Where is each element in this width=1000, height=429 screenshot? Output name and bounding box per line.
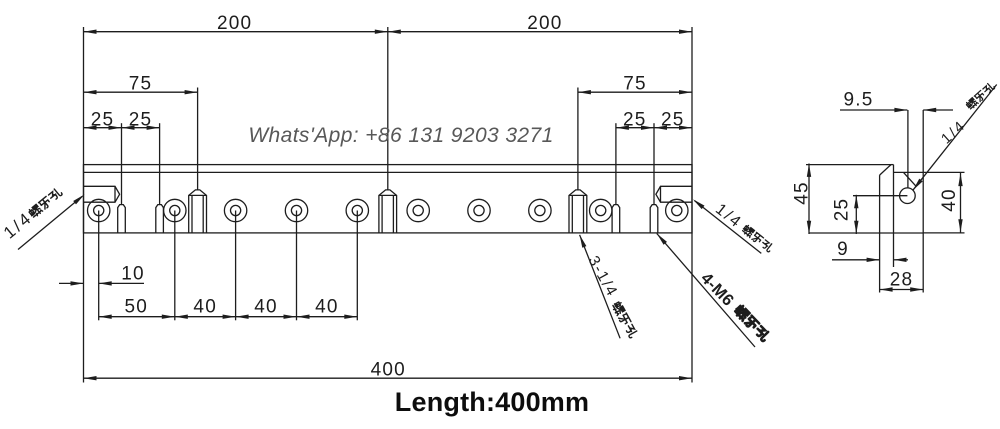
svg-text:75: 75 bbox=[623, 73, 647, 94]
svg-text:25: 25 bbox=[91, 109, 115, 130]
svg-text:75: 75 bbox=[129, 73, 153, 94]
svg-text:200: 200 bbox=[527, 13, 562, 34]
leader left arrowhead bbox=[73, 194, 84, 204]
svg-text:40: 40 bbox=[315, 296, 339, 317]
leader right 1/4 CJK 螺牙孔 bbox=[741, 224, 774, 252]
extension line centre 200mm bbox=[387, 27, 389, 191]
dim 200 mid arrow left-side bbox=[375, 30, 388, 34]
dim 200 left arrow bbox=[84, 30, 97, 34]
leader 3-1/4 CJK 螺牙孔 bbox=[611, 301, 638, 339]
bar second top line bbox=[84, 171, 693, 173]
dim 25 top arrow bbox=[854, 195, 858, 208]
extension right edge up bbox=[922, 110, 924, 172]
extension hole centre up bbox=[907, 110, 909, 188]
end leader 1/4 threaded hole: line bbox=[913, 85, 997, 191]
hole circle inner #1 bbox=[94, 205, 104, 215]
hole circle inner #10 bbox=[672, 205, 682, 215]
dimension 75 right: line bbox=[578, 91, 692, 93]
end view: bottom edge (with extension to 45 dim) bbox=[809, 232, 923, 234]
hole circle outer #10 bbox=[666, 199, 688, 221]
left end tab (1/4 hole side view) bbox=[84, 186, 120, 202]
leader left 1/4 threaded hole: line bbox=[18, 197, 82, 250]
leader 3-1/4 arrowhead bbox=[580, 235, 587, 248]
hole circle outer #9 bbox=[590, 199, 612, 221]
1/4 post #3 bbox=[569, 190, 587, 233]
dim 9.5 arrow at hole centre bbox=[894, 108, 907, 112]
dimension 200/200 top: line bbox=[84, 31, 693, 33]
dim 10 outside-left arrow bbox=[71, 281, 84, 285]
right end tab (1/4 hole side view) bbox=[656, 186, 692, 202]
end view: strip right edge bbox=[893, 165, 895, 233]
svg-text:Whats'App: +86 131 9203 3271: Whats'App: +86 131 9203 3271 bbox=[248, 124, 553, 147]
dim 45 top arrow bbox=[807, 164, 811, 177]
end view: 1/4 hole circle bbox=[900, 188, 916, 204]
end view: right edge bbox=[922, 172, 924, 233]
svg-text:9: 9 bbox=[837, 239, 849, 260]
extension line pin 25mm bbox=[121, 123, 123, 204]
svg-text:25: 25 bbox=[623, 109, 647, 130]
hole circle outer #2 bbox=[164, 199, 186, 221]
extension line 75mm left post bbox=[197, 88, 199, 191]
extension line hole 10mm bbox=[98, 211, 100, 321]
end view: main top edge bbox=[894, 171, 924, 173]
dimension 10: lines bbox=[59, 282, 84, 284]
extension line pin 350mm bbox=[615, 123, 617, 204]
hole circle outer #3 bbox=[224, 199, 246, 221]
dim 25L arrows bbox=[84, 126, 97, 130]
dim 40 top extension bbox=[923, 171, 964, 173]
dim 75L right arrow bbox=[185, 90, 198, 94]
svg-text:400: 400 bbox=[371, 359, 406, 380]
M6 pin #4 bbox=[650, 205, 658, 233]
end view: chamfer top-left bbox=[880, 165, 891, 176]
dim 40 right arrow bbox=[344, 315, 357, 319]
end view: strip top bbox=[891, 164, 894, 166]
dim 45 bottom arrow bbox=[807, 221, 811, 234]
extension strip-left down bbox=[879, 233, 881, 293]
1/4 post #2 bbox=[379, 190, 397, 233]
dim 75R left arrow bbox=[578, 90, 591, 94]
leader right arrowhead bbox=[693, 199, 705, 209]
dim 10 arrow at hole-1 line bbox=[99, 281, 112, 285]
extension line pin 50mm bbox=[159, 123, 161, 204]
extension line 325mm right post bbox=[577, 88, 579, 191]
dim 25R arrows bbox=[616, 126, 629, 130]
hole circle outer #6 bbox=[407, 199, 429, 221]
hole circle outer #5 bbox=[346, 199, 368, 221]
end leader arrowhead bbox=[913, 179, 923, 191]
dim 200 right arrow bbox=[679, 30, 692, 34]
end dim 45: line bbox=[808, 164, 810, 235]
leader 4-M6 arrowhead bbox=[657, 234, 667, 245]
hole circle inner #9 bbox=[596, 205, 606, 215]
dimension 75 left: line bbox=[84, 91, 198, 93]
hole circle inner #6 bbox=[413, 205, 423, 215]
hole circle inner #3 bbox=[231, 205, 241, 215]
leader right 1/4 threaded hole: line bbox=[695, 201, 762, 254]
M6 pin #3 bbox=[612, 205, 620, 233]
dim 40 bottom extension bbox=[923, 232, 964, 234]
dimension 400: line bbox=[84, 377, 693, 379]
svg-text:Length:400mm: Length:400mm bbox=[395, 387, 589, 417]
leader 3-1/4 threaded holes: line bbox=[580, 235, 621, 338]
dim 40 top arrow bbox=[958, 173, 962, 186]
dim 400 left arrow bbox=[84, 376, 97, 380]
dimension 50/40/40/40: line bbox=[99, 316, 358, 318]
extension line hole 140mm bbox=[296, 211, 298, 321]
end dim 25: line bbox=[855, 195, 857, 234]
leader left 1/4 CJK 螺牙孔 bbox=[28, 187, 63, 219]
svg-text:25: 25 bbox=[832, 198, 853, 222]
dim 40 bottom arrow bbox=[958, 219, 962, 232]
extension line hole 180mm bbox=[356, 211, 358, 321]
hole circle outer #4 bbox=[285, 199, 307, 221]
dim 9.5 arrow at right edge bbox=[923, 108, 936, 112]
dim 75R right arrow bbox=[679, 90, 692, 94]
hole circle outer #7 bbox=[468, 199, 490, 221]
svg-text:40: 40 bbox=[254, 296, 278, 317]
extension line bar right edge (full) bbox=[691, 27, 693, 383]
dim 25 extension to hole centre bbox=[853, 195, 907, 197]
dim 75L left arrow bbox=[84, 90, 97, 94]
svg-text:25: 25 bbox=[129, 109, 153, 130]
hole circle outer #8 bbox=[529, 199, 551, 221]
leader 4-M6 bold CJK 螺牙孔 bbox=[734, 304, 771, 342]
hole circle inner #5 bbox=[352, 205, 362, 215]
end dim 9.5: line bbox=[840, 109, 907, 111]
svg-text:40: 40 bbox=[939, 188, 960, 212]
dimension 25/25 left: line bbox=[84, 127, 160, 129]
extension line bar left edge (full) bbox=[83, 27, 85, 383]
extension right-edge down bbox=[922, 233, 924, 293]
end view: countersink diagonal bbox=[904, 172, 917, 186]
dimension 25/25 right: line bbox=[616, 127, 692, 129]
end dim 40: line bbox=[960, 173, 962, 233]
hole circle inner #7 bbox=[474, 205, 484, 215]
svg-text:28: 28 bbox=[890, 270, 914, 291]
M6 pin #2 bbox=[156, 205, 164, 233]
svg-text:200: 200 bbox=[217, 13, 252, 34]
end view: strip left edge bbox=[879, 175, 881, 233]
svg-text:9.5: 9.5 bbox=[843, 90, 873, 111]
hole circle inner #4 bbox=[291, 205, 301, 215]
dim 25 bottom arrow bbox=[854, 221, 858, 234]
hole circle inner #8 bbox=[535, 205, 545, 215]
end dim 9: line + arrows bbox=[832, 259, 880, 261]
hole circle inner #2 bbox=[170, 205, 180, 215]
end dim 28: line bbox=[880, 289, 924, 291]
svg-text:10: 10 bbox=[121, 264, 145, 285]
M6 pin #1 bbox=[118, 205, 126, 233]
end leader 1/4 CJK 螺牙孔 bbox=[965, 82, 995, 110]
1/4 post #1 bbox=[189, 190, 207, 233]
svg-text:40: 40 bbox=[193, 296, 217, 317]
svg-text:25: 25 bbox=[661, 109, 685, 130]
hole circle outer #1 bbox=[88, 199, 110, 221]
dim 50 left arrow bbox=[99, 315, 112, 319]
extension line hole 60mm bbox=[174, 211, 176, 321]
dim 45 top extension bbox=[806, 164, 891, 166]
extension line hole 100mm bbox=[235, 211, 237, 321]
extension line pin 375mm bbox=[653, 123, 655, 204]
leader 4-M6 threaded holes (bold): line bbox=[657, 234, 755, 348]
svg-text:45: 45 bbox=[792, 181, 813, 205]
bar outline rectangle bbox=[84, 165, 693, 233]
extension strip-right down bbox=[893, 233, 895, 267]
dim 200 mid arrow right-side bbox=[388, 30, 401, 34]
dim 400 right arrow bbox=[679, 376, 692, 380]
svg-text:50: 50 bbox=[125, 296, 149, 317]
